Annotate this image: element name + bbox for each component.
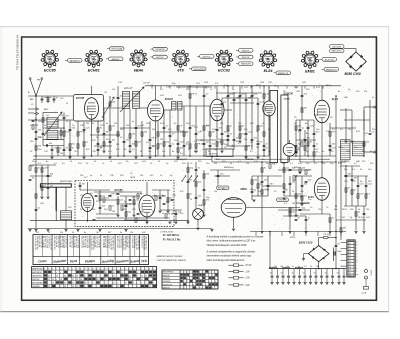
wire: [344, 175, 368, 177]
svg-text:10n: 10n: [368, 169, 371, 171]
component: [355, 212, 357, 216]
ground: [288, 231, 291, 233]
filter cap: [299, 269, 301, 276]
wire: [340, 165, 360, 167]
wire: [221, 98, 223, 150]
svg-text:7: 7: [58, 60, 59, 62]
svg-text:8: 8: [188, 54, 189, 56]
svg-text:8n: 8n: [266, 147, 268, 149]
component: [283, 190, 286, 192]
svg-text:3n: 3n: [50, 97, 52, 99]
svg-text:4: 4: [87, 65, 88, 67]
svg-text:0,8 2,1 46 68: 0,8 2,1 46 68: [126, 236, 128, 247]
component: [42, 132, 45, 134]
wattage legend: [228, 264, 233, 266]
wire: [296, 119, 314, 121]
svg-text:1,2 6,3 0,55 220: 1,2 6,3 0,55 220: [49, 236, 51, 250]
wire: [94, 145, 112, 147]
svg-text:96: 96: [145, 275, 147, 277]
svg-text:1,2 6,3 0,55 220: 1,2 6,3 0,55 220: [135, 236, 137, 250]
mains bus: [269, 268, 346, 270]
ground: [40, 196, 43, 198]
switch contacts: [182, 177, 185, 182]
component: [304, 138, 307, 140]
wire: [214, 175, 230, 177]
svg-text:3: 3: [44, 268, 45, 270]
svg-text:3n: 3n: [198, 167, 200, 169]
wire: [35, 96, 37, 103]
component: [305, 218, 308, 220]
component: [257, 184, 259, 188]
wire: [351, 166, 353, 206]
svg-text:8n: 8n: [154, 195, 156, 197]
wire: [252, 195, 268, 197]
component: [345, 174, 348, 176]
svg-text:1,2 6,3 0,55 220: 1,2 6,3 0,55 220: [122, 236, 124, 250]
component: [267, 184, 270, 186]
wire: [96, 213, 118, 215]
svg-text:HANGERŐ: HANGERŐ: [176, 158, 187, 161]
wire: [43, 127, 64, 129]
wire: [336, 219, 366, 221]
svg-text:1M: 1M: [112, 211, 115, 213]
wire: [125, 196, 127, 220]
svg-text:25k: 25k: [266, 189, 269, 191]
svg-text:1M: 1M: [60, 153, 63, 155]
svg-text:10n: 10n: [308, 199, 311, 201]
component: [63, 148, 66, 150]
svg-text:12k: 12k: [130, 232, 133, 234]
component: [365, 184, 368, 186]
svg-text:2k: 2k: [140, 151, 142, 153]
component: [117, 132, 119, 136]
svg-text:1: 1: [46, 50, 47, 52]
svg-text:15k: 15k: [220, 123, 223, 125]
wire: [69, 120, 71, 156]
heater bus: [250, 231, 346, 233]
ground: [68, 156, 71, 158]
svg-text:25: 25: [48, 275, 50, 277]
ground: [220, 150, 223, 152]
component: [295, 148, 297, 152]
component: [83, 142, 85, 146]
component: [365, 194, 367, 198]
svg-text:PE 1k: PE 1k: [248, 145, 254, 147]
component: [363, 142, 365, 146]
wire: [152, 189, 170, 191]
FM box interior components: [95, 194, 98, 196]
wire: [335, 96, 337, 269]
wire: [344, 205, 366, 207]
svg-text:225 12 4,7 0,1: 225 12 4,7 0,1: [80, 236, 82, 248]
svg-text:b: b: [149, 268, 150, 270]
wire: [28, 119, 47, 121]
pill label: [322, 58, 337, 62]
wire: [51, 146, 53, 157]
svg-text:8: 8: [317, 55, 318, 57]
svg-text:3: 3: [88, 268, 89, 270]
NF shield box: [206, 149, 233, 157]
wire: [278, 169, 310, 171]
ground: [196, 227, 199, 229]
svg-text:5k: 5k: [152, 211, 154, 213]
component: [313, 132, 316, 134]
svg-text:PE 1k: PE 1k: [256, 85, 261, 87]
svg-text:h: h: [356, 262, 357, 264]
tube V2 ECH81: [148, 100, 164, 121]
coil L18 L19: [172, 102, 177, 111]
svg-text:225 12 4,7 0,1: 225 12 4,7 0,1: [57, 236, 59, 248]
component: [97, 128, 99, 132]
svg-text:5k: 5k: [124, 149, 126, 151]
svg-text:250 245 8,2 110: 250 245 8,2 110: [124, 236, 126, 250]
wire: [304, 130, 306, 156]
svg-text:c: c: [356, 248, 357, 250]
svg-text:PE 1k: PE 1k: [198, 143, 204, 145]
component: [63, 117, 66, 119]
tube socket 6BA6: [133, 53, 144, 64]
pill label: [200, 55, 215, 59]
svg-text:TORZ.SZŰRŐ: TORZ.SZŰRŐ: [193, 68, 206, 71]
ground: [210, 229, 213, 231]
component: [41, 168, 43, 172]
component: [295, 194, 297, 198]
svg-text:250 245 8,2 110: 250 245 8,2 110: [53, 236, 55, 250]
svg-text:10n: 10n: [206, 163, 209, 165]
component: [329, 148, 332, 150]
svg-text:L16 L17: L16 L17: [124, 88, 133, 90]
svg-text:30: 30: [72, 232, 74, 234]
ground: [128, 150, 131, 152]
component: [69, 144, 71, 148]
wire: [65, 220, 67, 229]
svg-text:9: 9: [180, 284, 181, 286]
wire: [252, 175, 282, 177]
wire: [268, 116, 270, 156]
wire: [187, 162, 189, 221]
svg-text:2: 2: [141, 268, 142, 270]
component: [189, 127, 192, 129]
component: [29, 166, 31, 170]
wire: [167, 190, 169, 210]
svg-text:7: 7: [189, 60, 190, 62]
lower parallel bus: [33, 158, 212, 160]
svg-text:10n: 10n: [316, 129, 319, 131]
wire: [104, 107, 122, 109]
wire: [129, 109, 131, 151]
filter cap: [282, 269, 284, 276]
wire: [28, 108, 34, 110]
svg-text:50μF: 50μF: [337, 251, 342, 253]
svg-text:9: 9: [183, 50, 184, 52]
component: [329, 144, 332, 146]
component: [301, 108, 303, 112]
filter cap: [293, 269, 295, 276]
svg-text:JELZŐCSŐ: JELZŐCSŐ: [324, 58, 334, 61]
svg-text:225 12 4,7 0,1: 225 12 4,7 0,1: [71, 236, 73, 248]
wire: [289, 156, 291, 162]
pill label: [109, 57, 124, 61]
ground: [148, 156, 151, 158]
svg-text:4: 4: [218, 65, 219, 67]
component: [289, 182, 292, 184]
svg-text:1: 1: [306, 51, 307, 53]
svg-text:6: 6: [229, 65, 230, 67]
svg-text:250 245 8,2 110: 250 245 8,2 110: [145, 236, 147, 250]
wire: [160, 131, 188, 133]
wire: [357, 176, 359, 206]
filter cap: [288, 269, 290, 276]
wire: [284, 195, 302, 197]
component: [163, 142, 165, 146]
wire: [120, 195, 140, 197]
ground: [294, 214, 297, 216]
filter cap: [304, 269, 306, 276]
wire: [87, 212, 89, 221]
ukw box ECC85: [73, 95, 103, 121]
wire: [159, 190, 161, 210]
component: [125, 204, 128, 206]
component: [209, 132, 211, 136]
tuning gang arrow 2: [120, 87, 144, 112]
wire: [155, 121, 157, 156]
filter cap: [326, 269, 328, 276]
wire: [296, 202, 310, 204]
pill 40uF near EM84: [217, 186, 230, 190]
svg-text:1k: 1k: [66, 103, 68, 105]
tube socket EM81: [304, 54, 315, 65]
wire: [212, 161, 270, 163]
component: [245, 146, 247, 150]
svg-text:18: 18: [60, 279, 62, 281]
svg-text:45 68 1,2 250: 45 68 1,2 250: [44, 236, 46, 248]
svg-text:3: 3: [129, 60, 130, 62]
svg-text:2: 2: [85, 54, 86, 56]
svg-text:ERŐS.SZAB: ERŐS.SZAB: [112, 48, 123, 51]
wire: [99, 190, 101, 214]
svg-text:PE 1k: PE 1k: [112, 193, 117, 195]
component: [167, 198, 169, 202]
svg-text:MÉRŐFREKV.: MÉRŐFREKV.: [163, 271, 175, 274]
svg-text:25k: 25k: [364, 91, 367, 93]
svg-text:96: 96: [80, 279, 82, 281]
component: [34, 112, 39, 115]
component: [177, 142, 180, 144]
speaker terminal stub 2: [364, 151, 374, 153]
svg-text:EM84-hez: EM84-hez: [224, 166, 235, 169]
svg-text:b: b: [48, 268, 49, 270]
svg-text:45 68 1,2 250: 45 68 1,2 250: [84, 236, 86, 248]
svg-text:4: 4: [141, 283, 142, 285]
component: [221, 140, 223, 144]
svg-text:12 96 225 1,6: 12 96 225 1,6: [141, 236, 143, 248]
svg-text:C41: C41: [36, 232, 39, 234]
wire: [120, 127, 150, 129]
svg-text:1M: 1M: [214, 163, 217, 165]
svg-text:PE 10: PE 10: [324, 234, 331, 236]
svg-text:1k: 1k: [110, 161, 112, 163]
voltage matrix table: [32, 267, 157, 288]
component: [195, 144, 197, 148]
svg-text:3n: 3n: [120, 232, 122, 234]
svg-text:NF EGYS.: NF EGYS.: [209, 154, 219, 156]
ground: [362, 231, 365, 233]
svg-text:10n: 10n: [166, 201, 169, 203]
component: [340, 228, 342, 232]
wire: [233, 93, 235, 150]
svg-text:PE 1k: PE 1k: [80, 131, 86, 133]
svg-text:12k: 12k: [256, 147, 259, 149]
svg-text:3: 3: [80, 268, 81, 270]
svg-text:12: 12: [141, 275, 143, 277]
svg-text:0,8 2,1 46 68: 0,8 2,1 46 68: [55, 236, 57, 247]
component: [35, 168, 37, 172]
svg-text:7: 7: [105, 283, 106, 285]
pill label: [153, 55, 168, 59]
svg-text:4: 4: [187, 272, 188, 274]
wire: [295, 176, 297, 214]
component: [189, 144, 191, 148]
svg-text:15k: 15k: [268, 151, 271, 153]
svg-text:ECH81: ECH81: [165, 98, 174, 101]
wire: [321, 86, 323, 100]
component: [77, 132, 79, 136]
wire: [57, 146, 59, 157]
svg-text:9: 9: [199, 288, 200, 290]
svg-text:TR 7644 TELEFUNKEN 64: TR 7644 TELEFUNKEN 64: [16, 35, 20, 70]
svg-text:3: 3: [171, 60, 172, 62]
filter cap: [343, 269, 345, 276]
wire: [196, 139, 216, 141]
svg-text:TOR.ERŐS.: TOR.ERŐS.: [155, 48, 166, 51]
wire: [43, 138, 64, 140]
svg-text:3n: 3n: [322, 151, 324, 153]
svg-text:50: 50: [337, 273, 339, 275]
svg-text:12: 12: [349, 275, 351, 277]
svg-text:25k: 25k: [152, 129, 155, 131]
tube V7 fm unit a: [81, 194, 94, 212]
dial lamp: [193, 209, 204, 220]
svg-text:TOR.KORL: TOR.KORL: [278, 200, 287, 202]
ground: [344, 140, 347, 142]
svg-text:10n: 10n: [180, 213, 183, 215]
component: [227, 134, 230, 136]
component: [257, 126, 259, 130]
svg-text:0,8 2,1 46 68: 0,8 2,1 46 68: [69, 236, 71, 247]
svg-text:9: 9: [96, 50, 97, 52]
svg-text:2: 2: [172, 54, 173, 56]
tube V6 EL84 lower: [314, 178, 329, 201]
pill label: [110, 47, 125, 51]
svg-text:4: 4: [262, 66, 263, 68]
wire: [163, 110, 165, 156]
component: [34, 108, 39, 111]
svg-text:3: 3: [215, 60, 216, 62]
svg-text:18: 18: [105, 279, 107, 281]
svg-text:12: 12: [76, 286, 78, 288]
component: [195, 196, 198, 198]
ground: [34, 229, 37, 231]
svg-text:VÉGFOK.: VÉGFOK.: [242, 49, 251, 52]
svg-text:EL84: EL84: [264, 69, 273, 73]
svg-text:KIV.FOK.: KIV.FOK.: [156, 57, 164, 59]
ground: [244, 156, 247, 158]
svg-text:b: b: [68, 268, 69, 270]
svg-text:AM: AM: [29, 98, 33, 101]
svg-text:4: 4: [196, 288, 197, 290]
svg-text:0,8 2,1 46 68: 0,8 2,1 46 68: [38, 236, 40, 247]
ground: [300, 203, 303, 205]
svg-text:2: 2: [215, 278, 216, 280]
tube socket EL84: [262, 53, 273, 64]
svg-text:12k: 12k: [162, 151, 165, 153]
svg-text:2: 2: [113, 268, 114, 270]
pill label: [192, 67, 207, 71]
terminal strip: [347, 240, 355, 277]
svg-text:EL84: EL84: [332, 98, 339, 101]
component: [203, 142, 206, 144]
svg-text:MÉRÉSI FESZÜLTSÉGEK: MÉRÉSI FESZÜLTSÉGEK: [157, 255, 184, 258]
wire: [30, 175, 52, 177]
component: [109, 126, 111, 130]
svg-text:1: 1: [264, 50, 265, 52]
220V terminals: [365, 270, 368, 273]
component: [245, 132, 248, 134]
svg-text:0,2 A: 0,2 A: [362, 292, 367, 295]
svg-text:DETEKTOR: DETEKTOR: [163, 284, 173, 286]
svg-text:25: 25: [270, 273, 272, 275]
svg-text:12k: 12k: [258, 191, 261, 193]
wire: [133, 196, 135, 214]
wire: [182, 105, 210, 107]
svg-text:9: 9: [187, 281, 188, 283]
wire: [355, 206, 357, 231]
svg-text:A feszültség értékek a csatlak: A feszültség értékek a csatlakozási pont…: [206, 235, 264, 238]
wire: [146, 217, 148, 221]
component: [257, 142, 260, 144]
component: [357, 194, 359, 198]
svg-text:INV.FOK.: INV.FOK.: [242, 57, 250, 59]
ferrite antenna rod: [40, 184, 71, 187]
wire: [251, 86, 253, 150]
svg-text:0,02: 0,02: [142, 232, 146, 234]
ground: [174, 221, 177, 223]
svg-text:SEGÉDR.: SEGÉDR.: [32, 285, 40, 288]
svg-text:8n: 8n: [306, 133, 308, 135]
component: [289, 168, 292, 170]
svg-text:2: 2: [212, 275, 213, 277]
svg-text:PE 1k: PE 1k: [338, 147, 343, 149]
filter cap: [321, 269, 323, 276]
wire: [251, 176, 253, 200]
ground: [238, 140, 241, 142]
svg-text:45 68 1,2 250: 45 68 1,2 250: [75, 236, 77, 248]
wire: [261, 162, 263, 231]
svg-text:2k: 2k: [80, 209, 82, 211]
svg-text:2 W: 2 W: [244, 278, 250, 280]
component: [203, 174, 205, 178]
svg-text:25k: 25k: [222, 189, 225, 191]
component: [216, 128, 219, 130]
fuse: [363, 287, 368, 290]
component: [183, 144, 186, 146]
alignment table: [162, 270, 218, 289]
outer frame: [22, 37, 377, 300]
svg-text:4: 4: [215, 281, 216, 283]
svg-text:6,3 14 0,3 225: 6,3 14 0,3 225: [46, 236, 48, 248]
wire: [141, 121, 143, 156]
svg-text:8: 8: [146, 53, 147, 55]
